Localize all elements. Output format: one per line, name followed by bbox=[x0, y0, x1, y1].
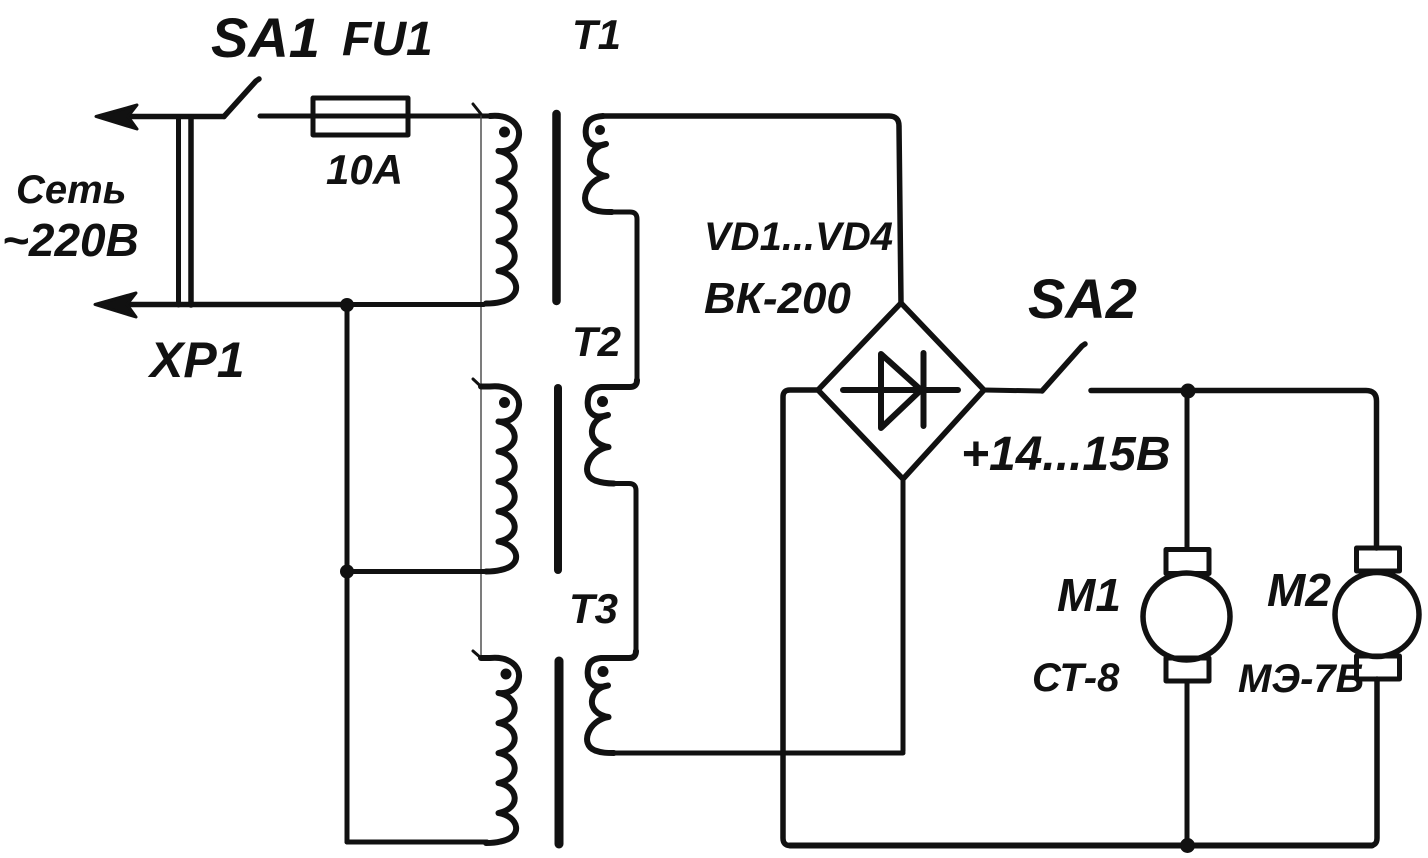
wire: SA1 fixed contact to fuse bbox=[260, 114, 313, 119]
motor M1 brush top bbox=[1166, 550, 1209, 574]
diode symbol inside bridge bbox=[843, 353, 958, 428]
junction + rail / M1 branch bbox=[1181, 384, 1196, 399]
svg-text:FU1: FU1 bbox=[342, 13, 433, 66]
tick: feeder tap T2 bbox=[473, 379, 481, 387]
svg-text:SA2: SA2 bbox=[1028, 267, 1137, 330]
motor M2 brush bottom bbox=[1357, 656, 1400, 679]
connector XP1 arrow bottom bbox=[95, 293, 136, 317]
junction M1 / bottom rail bbox=[1180, 838, 1195, 853]
svg-text:Т1: Т1 bbox=[572, 11, 621, 58]
wire: fuse to T1 primary bbox=[408, 114, 502, 119]
motor M1 brush bottom bbox=[1166, 658, 1209, 681]
dot T2 primary bbox=[499, 397, 510, 408]
transformer T1 secondary winding bbox=[585, 116, 612, 212]
dot T2 secondary bbox=[597, 396, 608, 407]
bridge rectifier VD1-VD4 diamond bbox=[818, 303, 984, 479]
svg-text:VD1...VD4: VD1...VD4 bbox=[704, 215, 893, 259]
svg-text:МЭ-7Б: МЭ-7Б bbox=[1238, 657, 1364, 701]
svg-text:М1: М1 bbox=[1057, 569, 1121, 621]
svg-text:М2: М2 bbox=[1267, 564, 1331, 616]
transformer T1 core bbox=[552, 114, 561, 301]
transformer T3 secondary winding bbox=[587, 651, 636, 753]
wire: M2 bottom to rail bbox=[1370, 679, 1377, 846]
transformer T1 primary winding bbox=[486, 116, 519, 304]
svg-text:~220В: ~220В bbox=[2, 214, 139, 266]
wire through fuse FU1 bbox=[313, 114, 408, 119]
transformer T3 core bbox=[555, 661, 564, 844]
wire: feeder bottom to T3 primary bottom bbox=[347, 840, 487, 845]
node: primary feed thin line bbox=[480, 114, 482, 659]
switch SA2 blade bbox=[1042, 344, 1085, 391]
connector XP1 arrow top bbox=[96, 105, 137, 129]
wire: feeder to T2 primary bottom bbox=[347, 569, 487, 574]
motor M2 body bbox=[1335, 573, 1419, 657]
transformer T3 primary winding bbox=[481, 658, 519, 843]
wire: mains top line from arrow to SA1 pivot bbox=[130, 114, 224, 120]
wire: bridge plus to SA2 bbox=[984, 390, 1042, 391]
tick: feeder tap T3 bbox=[473, 651, 481, 658]
dot T1 secondary bbox=[595, 125, 605, 135]
transformer T2 core bbox=[554, 388, 562, 570]
wire: bottom mains to T1 primary bottom bbox=[347, 302, 484, 307]
motor M2 brush top bbox=[1357, 548, 1400, 571]
svg-text:СТ-8: СТ-8 bbox=[1032, 656, 1120, 700]
switch SA1 blade bbox=[224, 79, 259, 117]
tick: feeder tap T1 bbox=[473, 104, 481, 114]
svg-text:10А: 10А bbox=[326, 146, 403, 193]
transformer T2 secondary winding bbox=[587, 380, 637, 484]
wire: SA2 fixed contact to M2 branch bbox=[1091, 391, 1377, 549]
connector XP1 plug bars bbox=[176, 117, 181, 305]
wire: T2 secondary bottom to series link bbox=[614, 484, 636, 652]
svg-text:SA1: SA1 bbox=[211, 6, 320, 69]
dot T3 secondary bbox=[598, 666, 609, 677]
wire: T1 secondary bottom to series link bbox=[612, 212, 637, 380]
wire: T1 secondary top to bridge top bbox=[603, 116, 901, 303]
wire: left vertical feeder down bbox=[345, 305, 350, 843]
wire: bridge minus (left vertex) down to bottom rail bbox=[783, 390, 818, 846]
wire: bottom output rail bbox=[790, 843, 1372, 849]
svg-text:Сеть: Сеть bbox=[16, 168, 126, 212]
fuse FU1 body bbox=[313, 98, 408, 135]
dot T3 primary bbox=[501, 669, 512, 680]
svg-text:Т2: Т2 bbox=[572, 318, 621, 365]
svg-text:ХР1: ХР1 bbox=[147, 332, 245, 388]
junction feeder / T2 primary bottom bbox=[340, 565, 354, 579]
wire: M1 bottom to rail bbox=[1185, 681, 1190, 846]
svg-text:+14...15В: +14...15В bbox=[961, 428, 1170, 481]
wire: T3 secondary bottom to bridge bottom bbox=[614, 751, 903, 756]
transformer T2 primary winding bbox=[481, 386, 519, 571]
motor M1 body bbox=[1143, 573, 1230, 660]
junction at XP1 bottom / vertical feeder bbox=[340, 298, 354, 312]
svg-text:Т3: Т3 bbox=[569, 585, 618, 632]
wire: mains bottom line from arrow through XP1 to junction bbox=[130, 302, 347, 308]
svg-text:ВК-200: ВК-200 bbox=[704, 274, 851, 323]
wire: bridge bottom vertex down to T3 wire bbox=[901, 479, 906, 751]
wire: M1 branch down bbox=[1185, 391, 1190, 549]
dot T1 primary bbox=[499, 127, 510, 138]
